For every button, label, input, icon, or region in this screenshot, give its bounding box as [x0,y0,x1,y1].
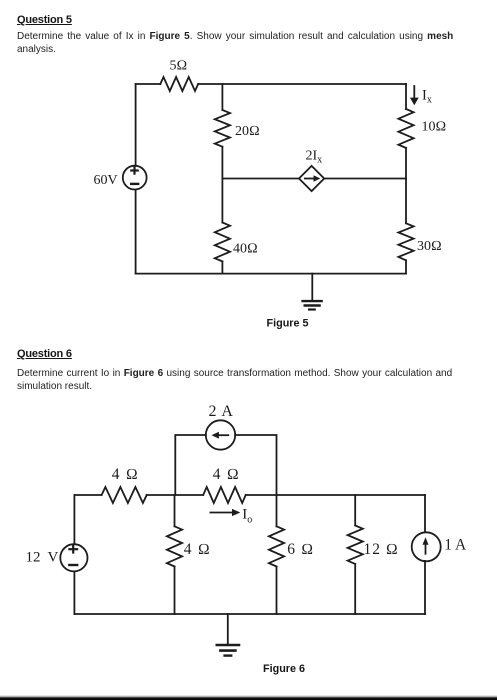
wire left branch lower [73,572,75,615]
wire bottom (figure 6) [74,613,425,615]
wire 12ohm branch upper stub [354,495,356,526]
ground (figure 6) [217,614,239,656]
wire top (right of 5ohm) [198,83,406,85]
svg-text:6 Ω: 6 Ω [287,541,314,558]
svg-text:5Ω: 5Ω [170,59,188,74]
wire right middle [405,148,407,223]
wire middle horizontal right [324,178,406,180]
resistor 5ohm (R top) [160,77,198,91]
svg-text:Figure 5: Figure 5 [267,317,309,329]
wire right lower stub [405,260,407,273]
resistor 4ohm horizontal 2 [203,487,246,503]
svg-text:V: V [48,550,59,566]
svg-text:4 Ω: 4 Ω [184,541,211,558]
Q5 text line 2 [17,44,56,57]
wire middle branch center [221,147,223,223]
wire left upper [135,84,137,165]
current source 2A [206,420,235,449]
Q6 text line 1 [17,368,452,381]
wire top-left segment [136,83,161,85]
wire main between resistors [147,494,204,496]
svg-text:30Ω: 30Ω [417,239,442,254]
svg-text:4 Ω: 4 Ω [112,466,139,483]
svg-text:40Ω: 40Ω [233,242,258,257]
wire middle horizontal left [222,178,299,180]
resistor 4ohm vertical [167,526,182,566]
resistor 40ohm [215,223,230,262]
wire 1A branch lower stub [424,561,426,614]
wire middle branch lower stub [221,261,223,273]
Question 5 header [17,14,72,26]
ground (figure 5) [303,274,322,310]
resistor 10ohm [398,109,413,148]
wire main left stub [74,494,101,496]
current arrow Ix [410,86,419,105]
wire 4ohm branch lower stub [174,567,176,615]
resistor 4ohm horizontal 1 [102,487,147,503]
wire top loop left [175,435,206,495]
Question 6 header [17,348,72,360]
wire middle branch upper stub [221,84,223,110]
voltage source 60V [123,166,147,190]
resistor 30ohm [398,223,413,260]
wire 4ohm branch upper stub [174,495,176,526]
resistor 12ohm [348,526,363,565]
wire 12ohm branch lower stub [354,564,356,614]
wire top loop right [235,435,276,495]
wire 6ohm branch upper stub [276,495,278,526]
dependent source 2Ix (diamond) [299,166,324,191]
current arrow Io [210,509,240,516]
voltage source 12V [60,544,87,571]
svg-text:4 Ω: 4 Ω [213,466,240,483]
wire 6ohm branch lower stub [276,567,278,615]
svg-text:Figure 6: Figure 6 [263,663,305,675]
Q6 text line 2 [17,381,92,394]
bottom page-edge shadow [0,690,497,700]
svg-text:60V: 60V [94,173,118,188]
svg-text:2Ix: 2Ix [306,149,323,166]
Q5 text line 1 [17,31,453,44]
wire main right [246,494,425,496]
svg-text:12: 12 [26,550,41,566]
svg-text:Ix: Ix [422,87,432,105]
svg-text:1 A: 1 A [444,537,467,554]
wire 1A branch upper stub [424,495,426,532]
resistor 6ohm [269,526,284,566]
wire right upper stub [405,84,407,109]
svg-text:Io: Io [242,507,252,526]
current source 1A [412,532,441,561]
wire left branch upper [73,495,75,544]
svg-text:20Ω: 20Ω [235,124,260,139]
svg-text:2 A: 2 A [209,403,234,420]
resistor 20ohm [215,110,230,147]
svg-text:10Ω: 10Ω [422,120,447,135]
wire left lower [135,190,137,274]
svg-text:12 Ω: 12 Ω [364,541,399,558]
wire bottom [136,273,406,275]
